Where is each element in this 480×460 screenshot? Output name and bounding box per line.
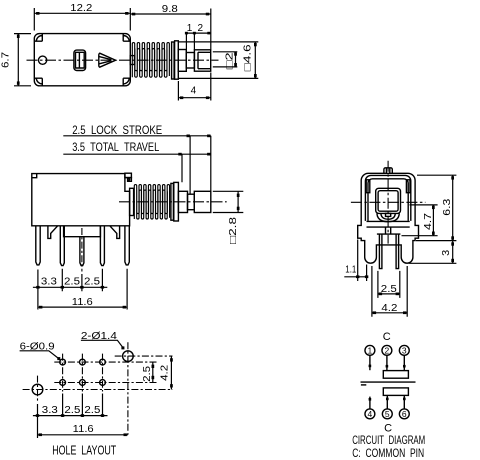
svg-text:4: 4 <box>191 86 197 97</box>
front view plunger inner <box>378 191 398 212</box>
front view lid frame outer <box>365 175 410 221</box>
hole layout col3 centerline <box>102 354 104 392</box>
svg-text:□2.8: □2.8 <box>228 216 239 244</box>
svg-text:□4.6: □4.6 <box>242 44 253 72</box>
hole layout small hole 1 <box>60 359 66 365</box>
hole layout small hole 3 <box>100 359 106 365</box>
front view base line C <box>377 233 401 235</box>
dim 2.5 front extension lines <box>378 271 400 298</box>
front view vertical centerline <box>387 161 389 244</box>
side view plunger neck <box>188 194 195 210</box>
svg-text:1.1: 1.1 <box>345 265 356 276</box>
side view top-right notch block <box>125 173 131 177</box>
svg-text:4.2: 4.2 <box>381 303 397 314</box>
svg-text:9.8: 9.8 <box>162 4 178 15</box>
svg-text:6.7: 6.7 <box>0 52 11 68</box>
front view clip slot left <box>366 180 370 193</box>
top view mounting hole circle <box>39 56 47 64</box>
side view mounting boss left <box>48 226 58 239</box>
dim 6.7 line <box>17 34 19 86</box>
top view plunger block <box>178 50 186 72</box>
travel dims extension lines <box>182 136 211 194</box>
svg-text:2: 2 <box>385 345 390 355</box>
top view latch detail inner <box>76 52 85 68</box>
side view pin 3 centerline <box>81 228 83 272</box>
svg-text:3.3: 3.3 <box>41 277 57 288</box>
dim 4.7 extension lines <box>402 205 438 236</box>
side view pin 3 <box>80 237 84 266</box>
circuit pin 2 circle <box>382 345 392 355</box>
top view plunger tip inner lines <box>198 52 211 68</box>
top view latch detail outer <box>74 50 86 70</box>
label 2-dia1.4 leader <box>81 340 124 349</box>
hole layout small hole 5 <box>80 380 86 386</box>
circuit pin 5 circle <box>382 409 392 419</box>
dim sq2.8 line <box>237 191 239 212</box>
svg-text:2.5: 2.5 <box>84 405 100 416</box>
front view pin left <box>379 234 382 269</box>
side view spring coil <box>134 185 169 219</box>
dim 6.3 and 3 line <box>452 175 454 263</box>
side view terminal base <box>64 226 101 237</box>
side view pin 2 <box>60 226 64 266</box>
hole layout dim 3.3 2.5 2.5 line <box>33 415 108 417</box>
side view top-left corner step <box>32 174 37 178</box>
svg-text:HOLE LAYOUT: HOLE LAYOUT <box>52 443 116 457</box>
side view pin 1 <box>36 226 40 265</box>
front view dome inner <box>381 213 395 219</box>
svg-text:3: 3 <box>402 345 407 355</box>
side view bottom extension lines <box>38 269 127 310</box>
dim 2.5 front line <box>378 293 400 295</box>
top view corner detail bottom-left <box>34 78 42 86</box>
circuit wire pin 1 <box>369 355 371 370</box>
hole layout col2 centerline <box>81 354 83 392</box>
top view corner detail bottom-right <box>123 78 130 86</box>
side view pin 5 <box>125 226 129 265</box>
top view corner detail top-left <box>34 34 42 42</box>
hole layout big hole top centerlines <box>115 342 173 435</box>
hole layout row1 centerline <box>54 361 158 363</box>
top view plunger neck <box>186 53 194 69</box>
svg-text:2.5: 2.5 <box>84 277 100 288</box>
front view body outline <box>358 173 419 263</box>
svg-text:6: 6 <box>402 409 407 419</box>
svg-text:11.6: 11.6 <box>73 424 94 435</box>
side view dim 3.3 2.5 2.5 line <box>33 286 107 288</box>
side view spring end ring <box>171 183 174 220</box>
dim 12.2 line <box>34 12 130 14</box>
svg-text:4: 4 <box>368 409 373 419</box>
dim sq4.6 extension lines <box>179 42 258 79</box>
svg-text:4.2: 4.2 <box>160 364 171 380</box>
circuit pin 1 circle <box>365 345 375 355</box>
dim 6.3 extension lines <box>409 175 456 263</box>
dim 3.5 total travel line <box>63 153 211 155</box>
side view top-right step detail <box>125 178 131 182</box>
top view horizontal centerline <box>27 59 219 61</box>
top view spring seat tab <box>130 56 134 65</box>
dim 4.7 line <box>432 205 434 236</box>
dim 1 2 line <box>186 32 210 34</box>
hole layout bottom extension lines <box>38 394 103 439</box>
dim 1.1 extension lines <box>358 240 367 282</box>
side view plunger flange <box>174 182 179 221</box>
dim 6.7 extension lines <box>14 34 31 86</box>
svg-text:CIRCUIT DIAGRAM: CIRCUIT DIAGRAM <box>352 435 425 447</box>
circuit pin 3 circle <box>399 345 409 355</box>
dim 12.2 extension lines <box>34 8 130 31</box>
svg-text:2: 2 <box>198 23 204 34</box>
front view base line A <box>367 220 410 222</box>
side view body outline <box>32 174 130 226</box>
side view dim 11.6 line <box>38 306 127 308</box>
hole layout small hole 6 <box>100 380 106 386</box>
svg-text:4.7: 4.7 <box>423 212 434 230</box>
circuit pin 6 circle <box>399 409 409 419</box>
circuit wire pin 2 <box>386 355 388 370</box>
dim 4 extension lines <box>178 73 210 101</box>
circuit pin 4 circle <box>365 409 375 419</box>
svg-text:2.5: 2.5 <box>64 277 80 288</box>
front view horizontal centerline <box>351 201 426 203</box>
side view plunger tip <box>194 191 211 212</box>
dim sq2 extension lines <box>213 52 238 67</box>
circuit common contact stub <box>361 384 366 386</box>
dim 1 and 2 extension lines <box>186 33 194 52</box>
circuit wire pin 4 <box>369 397 371 409</box>
front view dome outer <box>377 213 399 221</box>
svg-text:3: 3 <box>441 249 452 255</box>
hole layout row2 centerline <box>54 382 158 384</box>
svg-text:12.2: 12.2 <box>70 3 92 14</box>
svg-text:1: 1 <box>187 23 193 34</box>
svg-text:C: COMMON PIN: C: COMMON PIN <box>352 448 424 460</box>
svg-text:5: 5 <box>385 409 390 419</box>
svg-text:2.5: 2.5 <box>142 365 153 381</box>
front view pin right <box>396 234 399 269</box>
top view switch body outline <box>34 34 130 86</box>
hole layout dim 11.6 line <box>38 434 129 436</box>
circuit wire pin 5 <box>386 395 388 409</box>
top view spring coil <box>132 43 169 78</box>
svg-text:2.5: 2.5 <box>381 284 397 295</box>
svg-text:3.5 TOTAL TRAVEL: 3.5 TOTAL TRAVEL <box>72 142 159 154</box>
svg-text:6.3: 6.3 <box>442 198 453 216</box>
circuit common movable contact line <box>361 381 416 383</box>
svg-text:1: 1 <box>368 345 373 355</box>
hole layout col1 centerline <box>62 354 64 392</box>
svg-text:11.6: 11.6 <box>72 297 93 308</box>
circuit upper contact bar <box>383 371 408 379</box>
dim sq2 line <box>235 52 237 67</box>
hole layout big hole left centerlines <box>23 376 173 402</box>
front view lid frame inner <box>368 179 408 221</box>
side view pin 4 <box>100 226 104 266</box>
dim 2.5 lock stroke line <box>63 135 211 137</box>
front view base line B <box>367 226 410 228</box>
dim 1.1 line <box>344 276 366 278</box>
front view clip slot right <box>406 180 410 193</box>
front view top tab <box>384 168 392 174</box>
dim sq4.6 line <box>254 42 256 79</box>
dim 9.8 right extension line <box>210 9 212 50</box>
front view plunger outer <box>376 188 401 213</box>
side view horizontal centerline <box>119 201 227 203</box>
top view spring end ring <box>172 42 175 79</box>
front view dome center block <box>386 213 391 216</box>
hole layout small hole 2 <box>80 359 86 365</box>
hole layout small hole 4 <box>60 380 66 386</box>
hole layout big hole top-right <box>123 351 134 362</box>
dim 9.8 line <box>130 13 211 15</box>
dim 4.2 front line <box>372 312 407 314</box>
svg-text:3.3: 3.3 <box>42 405 58 416</box>
svg-text:C: C <box>384 423 392 435</box>
dim sq2.8 extension lines <box>213 191 244 212</box>
side view spring seat <box>130 188 134 215</box>
label 6-dia0.9 leader <box>20 351 60 360</box>
dim 4.2 front extension lines <box>372 266 407 317</box>
top view cam cone inner lines <box>99 57 111 64</box>
hole layout big hole left <box>32 384 43 395</box>
circuit lower contact bar <box>383 388 408 396</box>
hole layout dim 4.2 line <box>170 356 172 389</box>
front view stem lines <box>386 227 391 234</box>
top view plunger tip <box>194 50 210 71</box>
side view plunger block <box>178 191 187 212</box>
top view plunger flange <box>175 41 179 79</box>
svg-text:C: C <box>383 331 391 343</box>
svg-text:2.5: 2.5 <box>64 405 80 416</box>
top view corner detail top-right <box>123 34 130 42</box>
circuit wire pin 6 <box>403 395 405 409</box>
svg-text:□2: □2 <box>224 52 235 70</box>
dim 4 line <box>178 97 210 99</box>
hole layout dim 2.5 line <box>152 362 154 382</box>
svg-text:2.5 LOCK STROKE: 2.5 LOCK STROKE <box>72 125 162 137</box>
circuit wire pin 3 <box>403 355 405 370</box>
side view mounting boss right <box>110 226 120 239</box>
top view cam cone outline <box>99 53 116 67</box>
